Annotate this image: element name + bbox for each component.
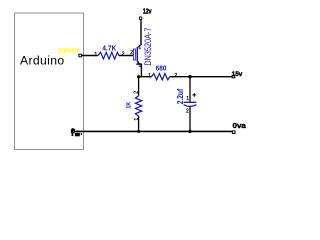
svg-text:12v: 12v [143,8,152,15]
polarity + mark (C1) [192,93,196,97]
resistor R1 4.7K (horizontal zigzag) [98,52,119,59]
svg-text:1: 1 [134,118,140,121]
junction node A (1K tap) [137,75,140,78]
svg-text:DigPwM 9: DigPwM 9 [58,48,79,55]
wire: node A horizontal to resistor R2 [139,76,152,78]
svg-text:Arduino: Arduino [20,53,64,67]
wire: R3 to ground rail [138,116,140,131]
wire: pin to resistor R1 [82,55,98,57]
output terminal (right) [232,75,235,78]
wire: Q1 source down to node A [140,64,142,77]
junction: C1 to ground rail [188,130,191,133]
ground terminal (bottom left) [71,130,74,133]
svg-text:2.2uf: 2.2uf [176,89,185,105]
supply terminal (top) [139,17,141,19]
svg-text:0va: 0va [233,121,248,130]
wire: resistor R1 to gate of Q1 [119,55,134,57]
wire: capacitor C1 to ground rail [189,107,191,132]
wire: Q1 drain up to supply terminal [140,19,142,45]
svg-text:15v: 15v [232,71,243,78]
svg-text:1: 1 [186,96,189,102]
wire: R2 to output terminal (node B) [170,76,232,78]
ground terminal (bottom right) [232,131,235,134]
capacitor C1 2.2uf (polarized) [184,102,197,106]
svg-text:DN3520A-7: DN3520A-7 [143,28,153,66]
svg-text:2: 2 [122,52,125,58]
ground rail wire (bottom) [74,130,234,132]
svg-text:1: 1 [94,52,97,58]
transistor Q1 N-MOSFET DN3520A-7 [133,45,141,65]
junction: R3 to ground rail [137,130,140,133]
svg-text:1K: 1K [126,102,133,109]
junction node B (cap tap) [188,75,191,78]
component box Arduino U1 [15,13,84,150]
wire: node B down to capacitor C1 [189,77,191,102]
net label 0v (bottom left) [72,128,83,136]
svg-text:1: 1 [138,45,141,51]
svg-text:1: 1 [148,73,151,79]
svg-text:2: 2 [130,50,133,56]
resistor R3 1K (vertical zigzag) [135,96,141,117]
resistor R2 680 (horizontal zigzag) [152,74,170,80]
pin terminal on Arduino box [79,54,82,57]
svg-text:2: 2 [134,91,140,94]
svg-text:2: 2 [186,108,189,114]
svg-text:4.7K: 4.7K [102,45,116,52]
wire: node A down to resistor R3 [138,77,140,96]
svg-text:680: 680 [156,66,167,73]
